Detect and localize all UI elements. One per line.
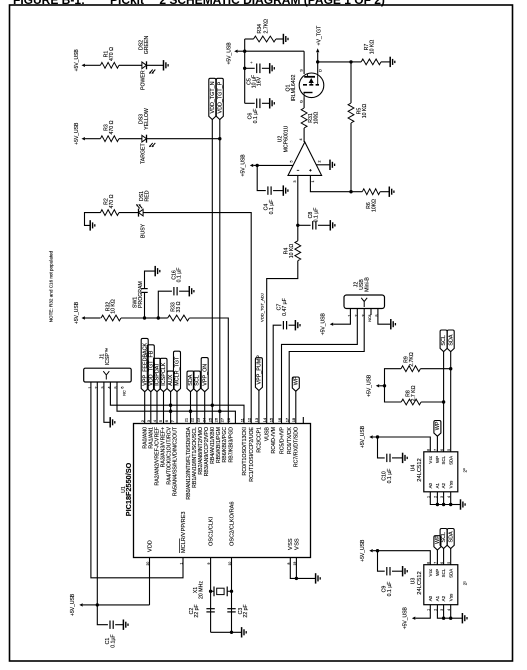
LED DS3 (142, 135, 147, 142)
svg-text:33 Ω: 33 Ω (176, 301, 182, 312)
junction feeder N (211, 404, 214, 407)
svg-text:10 KΩ: 10 KΩ (289, 244, 295, 259)
svg-text:ICSPCLK: ICSPCLK (161, 362, 167, 385)
svg-text:NC: NC (122, 390, 126, 396)
wire R4 to pin14 column (267, 261, 298, 424)
svg-text:NOTE: R32 and C16 not populate: NOTE: R32 and C16 not populated (49, 250, 54, 322)
wire VDD_TGT_N column (211, 120, 213, 424)
op-amp U2 (288, 142, 322, 175)
capacitor C10 (386, 454, 388, 462)
junction rail at C5 (243, 67, 246, 70)
ground C5 (269, 63, 271, 73)
wire VDD_TGT_FB to pin (150, 392, 152, 424)
svg-text:PIC18F2550/SO: PIC18F2550/SO (124, 462, 133, 516)
wire C8 branch (298, 224, 311, 226)
svg-text:470 Ω: 470 Ω (109, 194, 115, 208)
connector J2 box (344, 295, 385, 309)
wire VPP_PUMP to pin (258, 391, 260, 424)
wire rail to R34 (245, 38, 254, 40)
wire C4 branch (257, 165, 266, 190)
IC U1 box (134, 424, 311, 558)
svg-text:1: 1 (180, 563, 184, 565)
svg-text:POWER: POWER (141, 70, 147, 90)
wire DS3 to VDD_TGT_P node (147, 138, 220, 140)
svg-text:27: 27 (220, 417, 225, 422)
junction R9 SDA (449, 367, 452, 370)
ground C8 (329, 220, 331, 230)
wire busy ground jog (85, 213, 101, 226)
wire rail to VDD (97, 604, 149, 606)
svg-text:A1: A1 (435, 482, 440, 488)
wire rail to C6 (245, 102, 255, 104)
svg-text:S: S (299, 69, 303, 72)
svg-text:RB6/KBI2/PGC: RB6/KBI2/PGC (222, 427, 228, 463)
resistor R6 (362, 189, 380, 195)
wire WP to pin (295, 391, 297, 423)
svg-text:V cc: V cc (428, 568, 433, 576)
capacitor C9 (386, 567, 388, 575)
ground U4 (460, 499, 462, 509)
LED DS1 (139, 209, 144, 216)
junction R7/R5 node (349, 60, 352, 63)
svg-text:MCP6001U: MCP6001U (284, 125, 290, 152)
net flag ICSPCLK (160, 358, 167, 391)
ground C9 (402, 566, 404, 576)
rail +5V_USB flag (234, 50, 237, 53)
svg-text:ICSP™: ICSP™ (105, 348, 111, 365)
svg-text:VPP_ON: VPP_ON (202, 364, 208, 386)
wire SCL U3 to pin (443, 549, 445, 565)
svg-text:WP: WP (293, 376, 299, 385)
svg-text:2.7KΩ: 2.7KΩ (409, 352, 415, 367)
resistor R32 (101, 315, 121, 321)
resistor R2 (100, 210, 119, 216)
net flag WP U4 (434, 421, 441, 437)
ground oscillator (241, 627, 243, 637)
ground C16 (188, 286, 190, 296)
junction C10 node (376, 435, 379, 438)
R8R9 +5V_USB flag (376, 384, 379, 387)
junction osc ground rail (230, 631, 233, 634)
svg-text:Mini-B: Mini-B (365, 277, 371, 292)
wire drain to R7 node (318, 61, 351, 63)
svg-text:0.1 µF: 0.1 µF (253, 109, 259, 124)
wire J2 pin5 to ground (378, 309, 391, 325)
wire R7 to ground (381, 61, 390, 63)
wire flag to R node (379, 385, 384, 387)
junction R8R9 node (383, 384, 386, 387)
wire J1 pin2 to +5V rail (96, 382, 98, 605)
wire R32 to node (121, 317, 145, 319)
ground C6 (269, 98, 271, 108)
wire SDA bus U4 (450, 352, 452, 452)
svg-text:VPP_PUMP: VPP_PUMP (257, 355, 263, 385)
svg-text:WP: WP (435, 456, 440, 463)
svg-text:A0: A0 (428, 482, 433, 488)
wire U4 rail to ground (451, 504, 461, 506)
junction U4 A1 (436, 503, 439, 506)
net flag AUX (167, 371, 174, 392)
wire J1 pin1 to MCLR (91, 382, 183, 578)
target +5V_USB flag (82, 137, 85, 140)
svg-text:V SS: V SS (294, 538, 300, 550)
svg-text:RC2/CCP1: RC2/CCP1 (257, 427, 263, 453)
wire node to node2 (145, 317, 159, 319)
junction AUX feederA (169, 404, 172, 407)
resistor R33 (168, 315, 190, 321)
svg-text:A2: A2 (441, 482, 446, 488)
junction feeder SDA (189, 410, 192, 413)
net flag WP (292, 377, 299, 391)
svg-text:SCL: SCL (441, 532, 447, 543)
svg-text:+5V_USB: +5V_USB (227, 42, 233, 65)
net flag VDD_TGT_FB (147, 345, 154, 392)
wire AUX to pin (170, 392, 172, 424)
wire C10 to ground (392, 457, 403, 459)
svg-text:V ss: V ss (448, 593, 453, 601)
ground opamp (329, 160, 331, 170)
svg-text:15: 15 (269, 417, 274, 422)
wire opamp VDD (257, 164, 293, 166)
svg-text:RED: RED (145, 190, 151, 201)
svg-text:RC5/D+/VP: RC5/D+/VP (279, 426, 285, 453)
IC U3 box (424, 565, 458, 605)
junction VSS rail (295, 577, 298, 580)
svg-text:MCLR/V PP/RE3: MCLR/V PP/RE3 (181, 512, 187, 554)
wire WP pill to pin (436, 436, 438, 452)
svg-text:RC6/TX/CK: RC6/TX/CK (287, 426, 293, 454)
wire VDD pin (149, 558, 151, 605)
svg-text:0.1 µF: 0.1 µF (314, 208, 320, 223)
svg-text:VUSB: VUSB (265, 426, 271, 441)
svg-text:6: 6 (121, 386, 125, 388)
svg-text:OSC1/CLKI: OSC1/CLKI (209, 516, 215, 546)
wire U3 rail to ground (451, 617, 463, 619)
wire node to R4 (297, 225, 299, 241)
capacitor C4 (267, 186, 269, 194)
resistor R1 (100, 62, 119, 68)
junction C16 node (157, 316, 160, 319)
wire J2 pin2 D- (282, 309, 358, 424)
capacitor C2 (206, 608, 214, 610)
net arrow +V_TGT (317, 53, 319, 62)
program +5V_USB flag (82, 316, 85, 319)
wire MCLR_TGT to pin (176, 392, 178, 424)
junction U3 A2 (442, 617, 445, 620)
capacitor C7 (282, 321, 284, 329)
svg-text:2: 2 (318, 161, 322, 163)
resistor R7 (361, 59, 381, 65)
wire +5V to R32 (85, 317, 101, 319)
wire +5V flag to rail (238, 50, 245, 52)
overline MCLR (179, 539, 181, 554)
svg-text:VDD_TGT_P: VDD_TGT_P (217, 81, 223, 113)
svg-text:+5V_USB: +5V_USB (74, 122, 80, 145)
wire U3 Vss (450, 605, 452, 619)
wire R1 to DS2 (119, 64, 142, 66)
svg-text:RA5/AN4/SS/HLVDIN/C2OUT: RA5/AN4/SS/HLVDIN/C2OUT (173, 426, 179, 496)
svg-text:470 Ω: 470 Ω (109, 47, 115, 61)
op-amp plus mark (309, 169, 311, 171)
transistor Q1 body (299, 73, 324, 98)
svg-text:20 MHz: 20 MHz (199, 581, 205, 599)
svg-text:A0: A0 (428, 595, 433, 601)
svg-text:470 Ω: 470 Ω (109, 120, 115, 134)
net flag VPP_PUMP (255, 358, 262, 391)
svg-text:+5V_USB: +5V_USB (360, 539, 366, 562)
connector J1 box (84, 368, 132, 382)
svg-text:25: 25 (208, 417, 213, 422)
wire VPP_FEEDBACK to pin (144, 392, 146, 424)
wire DS1 to RC1 column (143, 213, 251, 424)
wire C6 to ground (262, 102, 270, 104)
wire C16 to ground (179, 290, 189, 292)
wire U4 Vss (450, 492, 452, 505)
svg-text:13: 13 (254, 417, 259, 422)
wire +5V to R3 (85, 138, 101, 140)
wire node to R9 (385, 369, 402, 386)
svg-text:17: 17 (285, 417, 290, 422)
svg-text:BUSY: BUSY (141, 223, 147, 238)
svg-text:0.1 µF: 0.1 µF (269, 200, 275, 215)
svg-text:3: 3 (293, 181, 297, 183)
junction +5V C1 node (96, 603, 99, 606)
wire flag to dot (83, 604, 98, 606)
connector J2 key (361, 298, 367, 307)
wire U4 A1 (436, 492, 438, 505)
wire Q1 gate (303, 98, 305, 109)
junction target LED on P column (218, 137, 221, 140)
net flag SDA U4 (447, 330, 454, 352)
ground C10 (402, 453, 404, 463)
junction drain node (316, 60, 319, 63)
wire R3 to DS3 (119, 138, 142, 140)
net flag SCL U4 (440, 330, 447, 352)
svg-text:NC: NC (368, 316, 372, 322)
svg-text:OSC2/CLKO/RA6: OSC2/CLKO/RA6 (229, 502, 235, 546)
net flag VPP_ON (201, 358, 208, 392)
net flag SCL U3 (440, 529, 447, 549)
net flag WP U3 (434, 536, 441, 550)
svg-text:RB7/KBI3/PGD: RB7/KBI3/PGD (228, 427, 234, 463)
svg-text:VDD_TGT_N: VDD_TGT_N (210, 81, 216, 113)
bottom +5V_USB flag (79, 603, 82, 606)
svg-text:10 KΩ: 10 KΩ (111, 299, 117, 314)
svg-text:V ss: V ss (448, 480, 453, 488)
svg-text:0.1 µF: 0.1 µF (387, 469, 393, 484)
net flag SDA U3 (447, 529, 454, 549)
wire U4 vcc rail (373, 437, 431, 452)
resistor R5 (348, 103, 354, 123)
wire U3 vcc rail (373, 551, 431, 565)
wire C9 branch (378, 551, 385, 572)
wire fb node to R6 (351, 191, 362, 193)
wire flag stub (253, 164, 257, 166)
wire U3 A0 to +5V (415, 605, 430, 619)
resistor R9 (401, 366, 420, 372)
ground R7 (389, 57, 391, 67)
svg-text:RC1/T1OSI/CCP2/UOE: RC1/T1OSI/CCP2/UOE (249, 426, 255, 481)
wire U3 A2 (443, 605, 445, 619)
U3 +5V_USB flag (369, 549, 372, 552)
wire J2 pin1 to +5V (333, 309, 350, 325)
wire DS2 to ground (147, 64, 164, 66)
wire opamp noninv input (310, 175, 351, 191)
junction R8 SCL (442, 400, 445, 403)
wire rail vertical (244, 39, 246, 103)
svg-text:WP: WP (435, 421, 441, 430)
svg-text:RB1/AN10/INT1/SCK/SCL: RB1/AN10/INT1/SCK/SCL (192, 427, 198, 488)
wire J2 pin4 stub (370, 309, 372, 316)
svg-text:SCL: SCL (195, 375, 201, 386)
svg-text:WP: WP (435, 569, 440, 576)
svg-text:+5V_USB: +5V_USB (74, 49, 80, 72)
svg-text:28: 28 (226, 417, 231, 422)
svg-text:R34: R34 (257, 24, 263, 34)
power +5V_USB flag (82, 64, 85, 67)
wire J1 pin4 feeder (110, 382, 244, 424)
svg-text:12: 12 (247, 417, 252, 422)
wire C7 to ground (289, 324, 296, 326)
wire OSC2 column (231, 558, 233, 633)
svg-text:SDA: SDA (448, 456, 453, 465)
svg-text:2¹: 2¹ (463, 581, 468, 586)
resistor R3 (100, 136, 119, 142)
wire VDD_TGT_P column (219, 120, 221, 424)
svg-text:GREEN: GREEN (144, 36, 150, 55)
wire SCL bus U4 (443, 352, 445, 452)
capacitor C1 (109, 621, 111, 629)
ground busy led (89, 220, 91, 230)
wire C1 to ground (115, 624, 123, 626)
wire ICSPDAT to pin (156, 392, 158, 424)
wire C10 branch (378, 437, 385, 458)
wire +5V to R1 (85, 64, 101, 66)
transistor Q1 internals (304, 76, 315, 78)
wire Q1 drain (317, 62, 319, 74)
svg-text:RA0/AN0: RA0/AN0 (143, 427, 149, 449)
svg-text:U4: U4 (411, 465, 417, 472)
resistor R8 (401, 399, 421, 405)
junction X1 left (209, 590, 212, 593)
ground J1 (109, 417, 111, 427)
svg-text:14: 14 (262, 417, 267, 422)
svg-text:RA4/T0CKI/C1OUT/RCV: RA4/T0CKI/C1OUT/RCV (167, 426, 173, 484)
wire SDA to pin (190, 392, 192, 424)
junction U3 Vss (449, 617, 452, 620)
capacitor C5 (256, 64, 258, 74)
svg-text:2⁰: 2⁰ (463, 468, 468, 473)
svg-text:21: 21 (183, 417, 188, 422)
svg-text:5: 5 (290, 161, 294, 163)
U4 +5V_USB flag (369, 435, 372, 438)
svg-text:V SS: V SS (288, 538, 294, 550)
net flag SCL (193, 371, 200, 392)
net flag MCLR_TGT (174, 351, 181, 392)
svg-text:RB3/AN9/CCP2/VPO: RB3/AN9/CCP2/VPO (204, 427, 210, 476)
svg-text:26: 26 (214, 417, 219, 422)
svg-text:+5V_USB: +5V_USB (70, 593, 76, 616)
ground C1 (122, 620, 124, 630)
svg-text:+5V_USB: +5V_USB (403, 606, 409, 629)
wire C4 to ground (273, 190, 283, 192)
junction feeder P (218, 410, 221, 413)
wire U4 A2 (443, 492, 445, 505)
svg-text:10KΩ: 10KΩ (371, 199, 377, 212)
wire J1 pin3 to ground (104, 382, 110, 422)
junction opamp VDD node (256, 164, 259, 167)
ground R34 (282, 34, 284, 44)
resistor R31 (301, 108, 307, 128)
svg-text:2.7KΩ: 2.7KΩ (264, 19, 270, 34)
svg-text:YELLOW: YELLOW (144, 108, 150, 130)
opamp +5V_USB flag (250, 164, 253, 167)
wire node to R5 (350, 62, 352, 103)
svg-text:22 pF: 22 pF (194, 604, 200, 617)
IC U4 box (424, 452, 458, 492)
svg-text:V DD_TGT_ADJ: V DD_TGT_ADJ (260, 293, 265, 322)
wire R31 to opamp out (303, 128, 305, 142)
svg-text:10 KΩ: 10 KΩ (362, 104, 368, 119)
wire C16 branch (158, 291, 172, 318)
wire opamp inv input (297, 175, 299, 225)
junction C8 node (296, 224, 299, 227)
wire opamp VSS (316, 164, 330, 166)
capacitor C8 (312, 221, 314, 229)
junction AUX feederB (169, 410, 172, 413)
wire WP U3 to pin (436, 550, 438, 565)
capacitor C3 (227, 608, 235, 610)
svg-text:+5V_USB: +5V_USB (360, 425, 366, 448)
svg-text:SCL: SCL (441, 335, 447, 346)
wire U3 A1 (437, 605, 450, 619)
svg-text:+: + (249, 61, 254, 64)
U3 A0 +5V_USB flag (412, 617, 415, 620)
svg-text:+5V_USB: +5V_USB (367, 374, 373, 397)
wire C5 to ground (262, 67, 270, 69)
junction rail at flag (243, 50, 246, 53)
svg-text:0.1µF: 0.1µF (111, 634, 117, 647)
wire SDA U3 to pin (450, 549, 452, 565)
net flag VDD_TGT_P (216, 78, 223, 119)
wire node to R7 (351, 61, 361, 63)
ground VSS (315, 573, 317, 583)
ground C4 (282, 185, 284, 195)
svg-text:+5V_USB: +5V_USB (241, 154, 247, 177)
svg-text:RC0/T1OSO/T13CKI: RC0/T1OSO/T13CKI (242, 427, 248, 475)
ground C7 (294, 320, 296, 330)
wire R34 to ground (276, 38, 284, 40)
svg-text:SCL: SCL (441, 455, 446, 464)
net flag ICSPDAT (154, 358, 161, 391)
wire J2 pin3 D+ (289, 309, 364, 424)
svg-text:1: 1 (311, 181, 315, 183)
ground R6 (388, 187, 390, 197)
junction C9 node (376, 549, 379, 552)
wire rail to C5 (245, 67, 255, 69)
wire node2 to R33 (158, 317, 167, 319)
svg-text:SDA: SDA (448, 334, 454, 345)
capacitor C16 (173, 287, 175, 295)
svg-text:24LC512: 24LC512 (417, 571, 423, 595)
svg-text:24: 24 (202, 417, 207, 422)
svg-text:D: D (319, 69, 323, 72)
J2 +5V_USB flag (330, 323, 333, 326)
svg-text:16V: 16V (257, 76, 263, 86)
capacitor C6 (256, 99, 258, 109)
svg-text:V cc: V cc (428, 455, 433, 463)
svg-text:RB4/AN11/KBI0: RB4/AN11/KBI0 (210, 427, 216, 464)
